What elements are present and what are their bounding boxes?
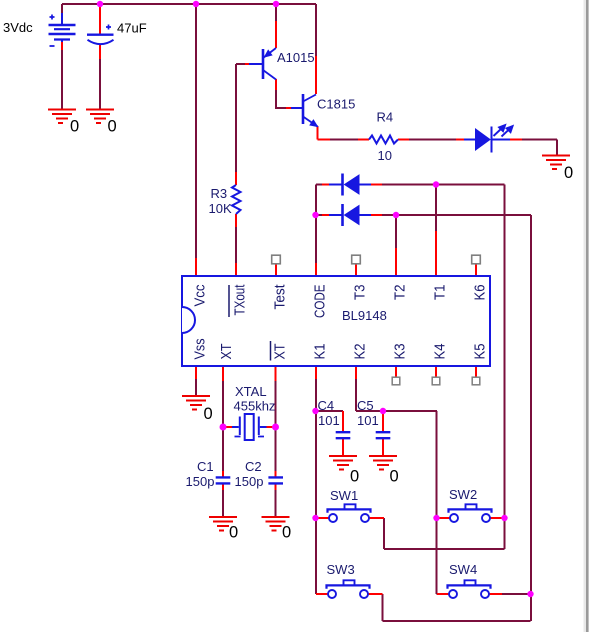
wire [316, 184, 505, 186]
wire [316, 214, 531, 216]
svg-text:0: 0 [229, 524, 238, 542]
svg-text:SW3: SW3 [327, 562, 355, 577]
svg-text:K6: K6 [472, 285, 489, 301]
svg-text:150p: 150p [235, 474, 264, 489]
junction [312, 408, 318, 414]
junction [193, 1, 199, 7]
junction [220, 424, 227, 431]
junction [527, 591, 533, 597]
ground [48, 110, 76, 124]
ground [329, 456, 357, 470]
wire [342, 411, 344, 456]
svg-text:3Vdc: 3Vdc [3, 20, 33, 35]
svg-text:K3: K3 [392, 344, 409, 360]
svg-text:TXout: TXout [232, 284, 249, 316]
ground [262, 517, 290, 531]
wire [222, 490, 224, 517]
svg-text:K1: K1 [312, 344, 329, 360]
wire [316, 410, 344, 412]
svg-text:0: 0 [70, 118, 79, 136]
wire [435, 185, 437, 232]
wire [235, 263, 237, 275]
svg-text:C5: C5 [357, 398, 374, 413]
wire [318, 126, 331, 140]
wire [276, 90, 286, 108]
pin TXout overline [228, 285, 230, 317]
transistor Q2 C1815 [291, 94, 318, 127]
diode D1 [329, 174, 371, 196]
junction [312, 515, 318, 521]
wire [456, 139, 522, 141]
crystal Y1 XTAL [232, 414, 267, 440]
battery V1 3Vdc [49, 13, 76, 46]
wire [245, 63, 250, 65]
svg-text:0: 0 [350, 468, 359, 486]
transistor Q1 A1015 [249, 48, 276, 80]
junction [273, 1, 279, 7]
node K6 open square [472, 255, 481, 264]
wire [382, 411, 384, 456]
svg-text:101: 101 [318, 413, 340, 428]
wire [195, 258, 197, 275]
svg-text:C4: C4 [318, 398, 335, 413]
svg-text:XT: XT [272, 344, 289, 360]
wire [396, 367, 476, 377]
ground [369, 456, 397, 470]
switch SW4 [448, 580, 491, 598]
ground [182, 396, 210, 410]
wire [316, 593, 383, 595]
wire [99, 4, 101, 34]
node T3 open square [352, 255, 361, 264]
wire [395, 215, 397, 248]
switch SW2 [449, 504, 492, 522]
svg-text:47uF: 47uF [117, 21, 147, 36]
junction [272, 424, 279, 431]
svg-text:SW4: SW4 [449, 562, 477, 577]
wire [330, 139, 358, 141]
wire [409, 139, 456, 141]
node Test open square [272, 255, 281, 264]
wire [61, 40, 63, 50]
svg-text:R3: R3 [211, 186, 228, 201]
wire [437, 593, 502, 595]
svg-text:XT: XT [218, 344, 235, 360]
svg-text:0: 0 [282, 524, 291, 542]
diode D2 [329, 204, 371, 226]
svg-text:C1: C1 [197, 459, 214, 474]
wire [236, 263, 316, 275]
junction [393, 212, 399, 218]
svg-text:0: 0 [564, 164, 573, 182]
wire [502, 593, 531, 595]
svg-text:T1: T1 [432, 285, 449, 301]
pin XT2 overline [270, 341, 272, 361]
wire [504, 185, 506, 550]
wire [384, 518, 505, 549]
ground [209, 517, 237, 531]
svg-text:Vcc: Vcc [192, 284, 209, 306]
svg-text:0: 0 [390, 468, 399, 486]
svg-text:K4: K4 [432, 344, 449, 360]
wire [315, 56, 317, 94]
wire [396, 231, 436, 275]
capacitor C5 101 [376, 432, 391, 438]
junction [433, 181, 439, 187]
svg-text:10K: 10K [209, 201, 232, 216]
border frame [584, 0, 587, 632]
svg-text:SW1: SW1 [330, 488, 358, 503]
svg-text:C1815: C1815 [317, 97, 355, 112]
switch SW1 [328, 504, 371, 522]
wire [315, 185, 317, 264]
wire [322, 184, 382, 186]
node K3 open square [392, 377, 400, 385]
wire [437, 517, 505, 519]
wire [522, 140, 557, 157]
wire [275, 21, 277, 48]
wire [316, 379, 320, 594]
wire [222, 381, 224, 425]
svg-text:CODE: CODE [312, 285, 329, 319]
svg-text:SW2: SW2 [449, 487, 477, 502]
resistor R3 [232, 185, 241, 214]
svg-text:Vss: Vss [192, 339, 209, 360]
node K4 open square [432, 377, 440, 385]
wire [99, 44, 101, 59]
svg-text:455khz: 455khz [234, 399, 276, 414]
svg-text:K5: K5 [472, 344, 489, 360]
wire [236, 64, 245, 172]
wire [225, 426, 273, 428]
junction [433, 515, 439, 521]
wire [222, 429, 224, 471]
ground [86, 110, 114, 124]
wire [222, 471, 224, 490]
wire [530, 215, 532, 621]
wire [62, 3, 316, 5]
svg-text:10: 10 [378, 148, 392, 163]
wire [275, 79, 277, 90]
wire [315, 4, 317, 56]
wire [275, 4, 277, 21]
wire [275, 381, 277, 425]
wire [322, 214, 382, 216]
wire [196, 367, 356, 381]
wire [316, 517, 384, 519]
svg-text:101: 101 [357, 413, 379, 428]
svg-text:A1015: A1015 [277, 50, 315, 65]
LED D3 [464, 124, 513, 152]
capacitor C2 150p [268, 477, 283, 483]
wire [358, 139, 409, 141]
svg-text:C2: C2 [245, 459, 262, 474]
capacitor C4 101 [336, 432, 351, 438]
wire [235, 227, 237, 263]
svg-text:0: 0 [108, 118, 117, 136]
wire [275, 471, 277, 490]
wire [235, 172, 237, 227]
wire [437, 411, 441, 594]
wire [195, 4, 197, 258]
ground [542, 156, 570, 170]
capacitor C1 150p [216, 477, 231, 483]
svg-text:T3: T3 [352, 285, 369, 301]
svg-text:XTAL: XTAL [235, 384, 267, 399]
resistor R4 [369, 136, 398, 144]
op-amp U1 BL9148 IC body [182, 276, 490, 366]
svg-text:150p: 150p [186, 474, 215, 489]
wire [356, 379, 437, 411]
svg-text:Test: Test [272, 284, 289, 310]
svg-text:R4: R4 [377, 110, 394, 125]
wire [195, 379, 197, 395]
wire [275, 429, 277, 471]
node K5 open square [472, 377, 480, 385]
wire [61, 50, 63, 110]
capacitor C3 47uF [87, 25, 114, 45]
svg-text:T2: T2 [392, 285, 409, 301]
junction [97, 1, 103, 7]
svg-text:BL9148: BL9148 [342, 308, 387, 323]
switch SW3 [327, 580, 370, 598]
svg-text:0: 0 [204, 405, 213, 423]
junction [312, 212, 318, 218]
wire [275, 490, 277, 517]
wire [383, 594, 531, 621]
junction [501, 515, 507, 521]
svg-text:K2: K2 [352, 344, 369, 360]
junction [380, 408, 386, 414]
wire [99, 59, 101, 110]
wire [61, 4, 63, 13]
wire [286, 107, 291, 109]
wire [276, 264, 476, 275]
